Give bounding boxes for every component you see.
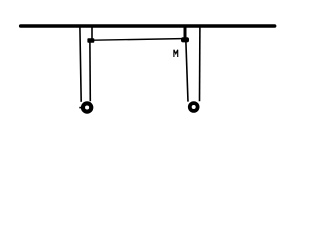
ceiling beam xyxy=(21,24,275,28)
wire left-inner string upper segment xyxy=(91,27,93,40)
rod M xyxy=(94,39,182,41)
left ring nub xyxy=(79,107,82,109)
left ring xyxy=(83,103,91,111)
wire left-inner string lower segment xyxy=(89,42,91,101)
node right knot xyxy=(181,37,189,42)
wire right-inner string lower segment xyxy=(186,42,188,102)
right ring xyxy=(190,103,198,111)
label M xyxy=(174,50,178,57)
wire right thick stub xyxy=(184,27,187,39)
node left knot xyxy=(87,38,94,43)
wire left-outer string xyxy=(80,27,81,102)
wire right-outer string xyxy=(199,27,201,101)
